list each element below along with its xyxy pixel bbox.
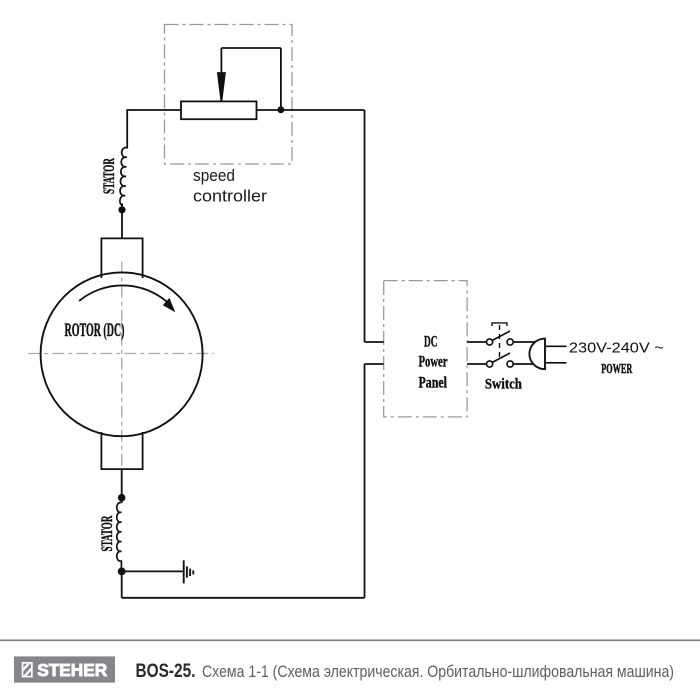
wire: L2 down to bottom rail: [121, 571, 123, 597]
motor vertical centerline: [121, 262, 123, 479]
svg-text:STATOR: STATOR: [101, 158, 118, 194]
svg-text:Схема 1-1 (Схема электрическая: Схема 1-1 (Схема электрическая. Орбиталь…: [202, 663, 674, 681]
wire: L1 to top brush: [121, 204, 123, 238]
svg-text:controller: controller: [193, 187, 267, 206]
svg-text:STATOR: STATOR: [99, 515, 116, 551]
svg-text:Panel: Panel: [419, 375, 448, 392]
wire: junction to ground: [122, 570, 184, 572]
label speed controller: [193, 166, 267, 205]
svg-text:Switch: Switch: [485, 377, 523, 393]
wire: stub into panel (upper): [365, 341, 384, 343]
bottom brush block: [101, 432, 142, 469]
switch S1 contacts top pole: [487, 339, 493, 345]
junction dot under L1: [118, 206, 125, 213]
label DC Power Panel: [419, 334, 448, 392]
STEHER logo icon: [22, 658, 35, 679]
svg-text:BOS-25.: BOS-25.: [136, 661, 196, 682]
svg-text:230V-240V ~: 230V-240V ~: [569, 340, 664, 357]
rotation direction arc arrow: [79, 285, 167, 301]
footer separator: [0, 639, 700, 641]
wire: pot left terminal horizontal: [127, 109, 181, 111]
wire: right rail lower vertical: [364, 364, 366, 598]
switch actuator link: [499, 325, 501, 359]
STEHER logo plate: [14, 656, 115, 682]
switch S1 contacts bottom pole: [487, 361, 493, 367]
junction dot under L2: [118, 568, 126, 576]
node A junction dot: [277, 106, 284, 113]
mains plug P1: [529, 339, 545, 370]
svg-text:ROTOR (DC): ROTOR (DC): [65, 321, 125, 341]
svg-text:POWER: POWER: [601, 362, 633, 377]
svg-text:Power: Power: [419, 354, 448, 371]
wire: right rail upper vertical: [364, 110, 366, 342]
svg-text:speed: speed: [193, 166, 235, 185]
wire: panel to switch bottom: [467, 363, 487, 365]
svg-text:STEHER: STEHER: [37, 660, 107, 680]
stator coil L2 (bottom): [117, 503, 122, 568]
switch blade top: [492, 331, 510, 341]
DC power panel dashed enclosure box: [384, 281, 467, 417]
potentiometer R1 body: [181, 101, 257, 119]
motor rotor circle M1: [41, 272, 203, 436]
wire: switch to plug bottom: [513, 363, 535, 365]
wire: wiper feedback top horizontal: [221, 47, 281, 49]
wire: stub into panel (lower): [365, 363, 384, 365]
plug prong bottom: [545, 362, 567, 364]
motor horizontal centerline: [28, 353, 214, 355]
wire: switch to plug top: [513, 341, 536, 343]
stator coil L1 (top): [120, 148, 127, 206]
speed controller dashed enclosure box: [165, 25, 293, 165]
switch blade bottom: [492, 353, 510, 363]
svg-text:DC: DC: [424, 334, 438, 351]
wire: left vertical to stator L1: [126, 109, 128, 148]
junction dot above L2: [118, 494, 126, 502]
wire: panel to switch top: [467, 341, 487, 343]
potentiometer wiper arrow: [218, 48, 225, 101]
wire: bottom brush to L2: [121, 469, 123, 503]
plug prong top: [545, 345, 567, 347]
wire: bottom rail: [122, 597, 365, 599]
top brush block: [101, 238, 142, 278]
switch actuator T bar: [492, 323, 507, 326]
wire: pot right terminal to node A: [257, 109, 365, 111]
wire: feedback right vertical: [280, 48, 282, 110]
ground symbol: [184, 560, 194, 583]
